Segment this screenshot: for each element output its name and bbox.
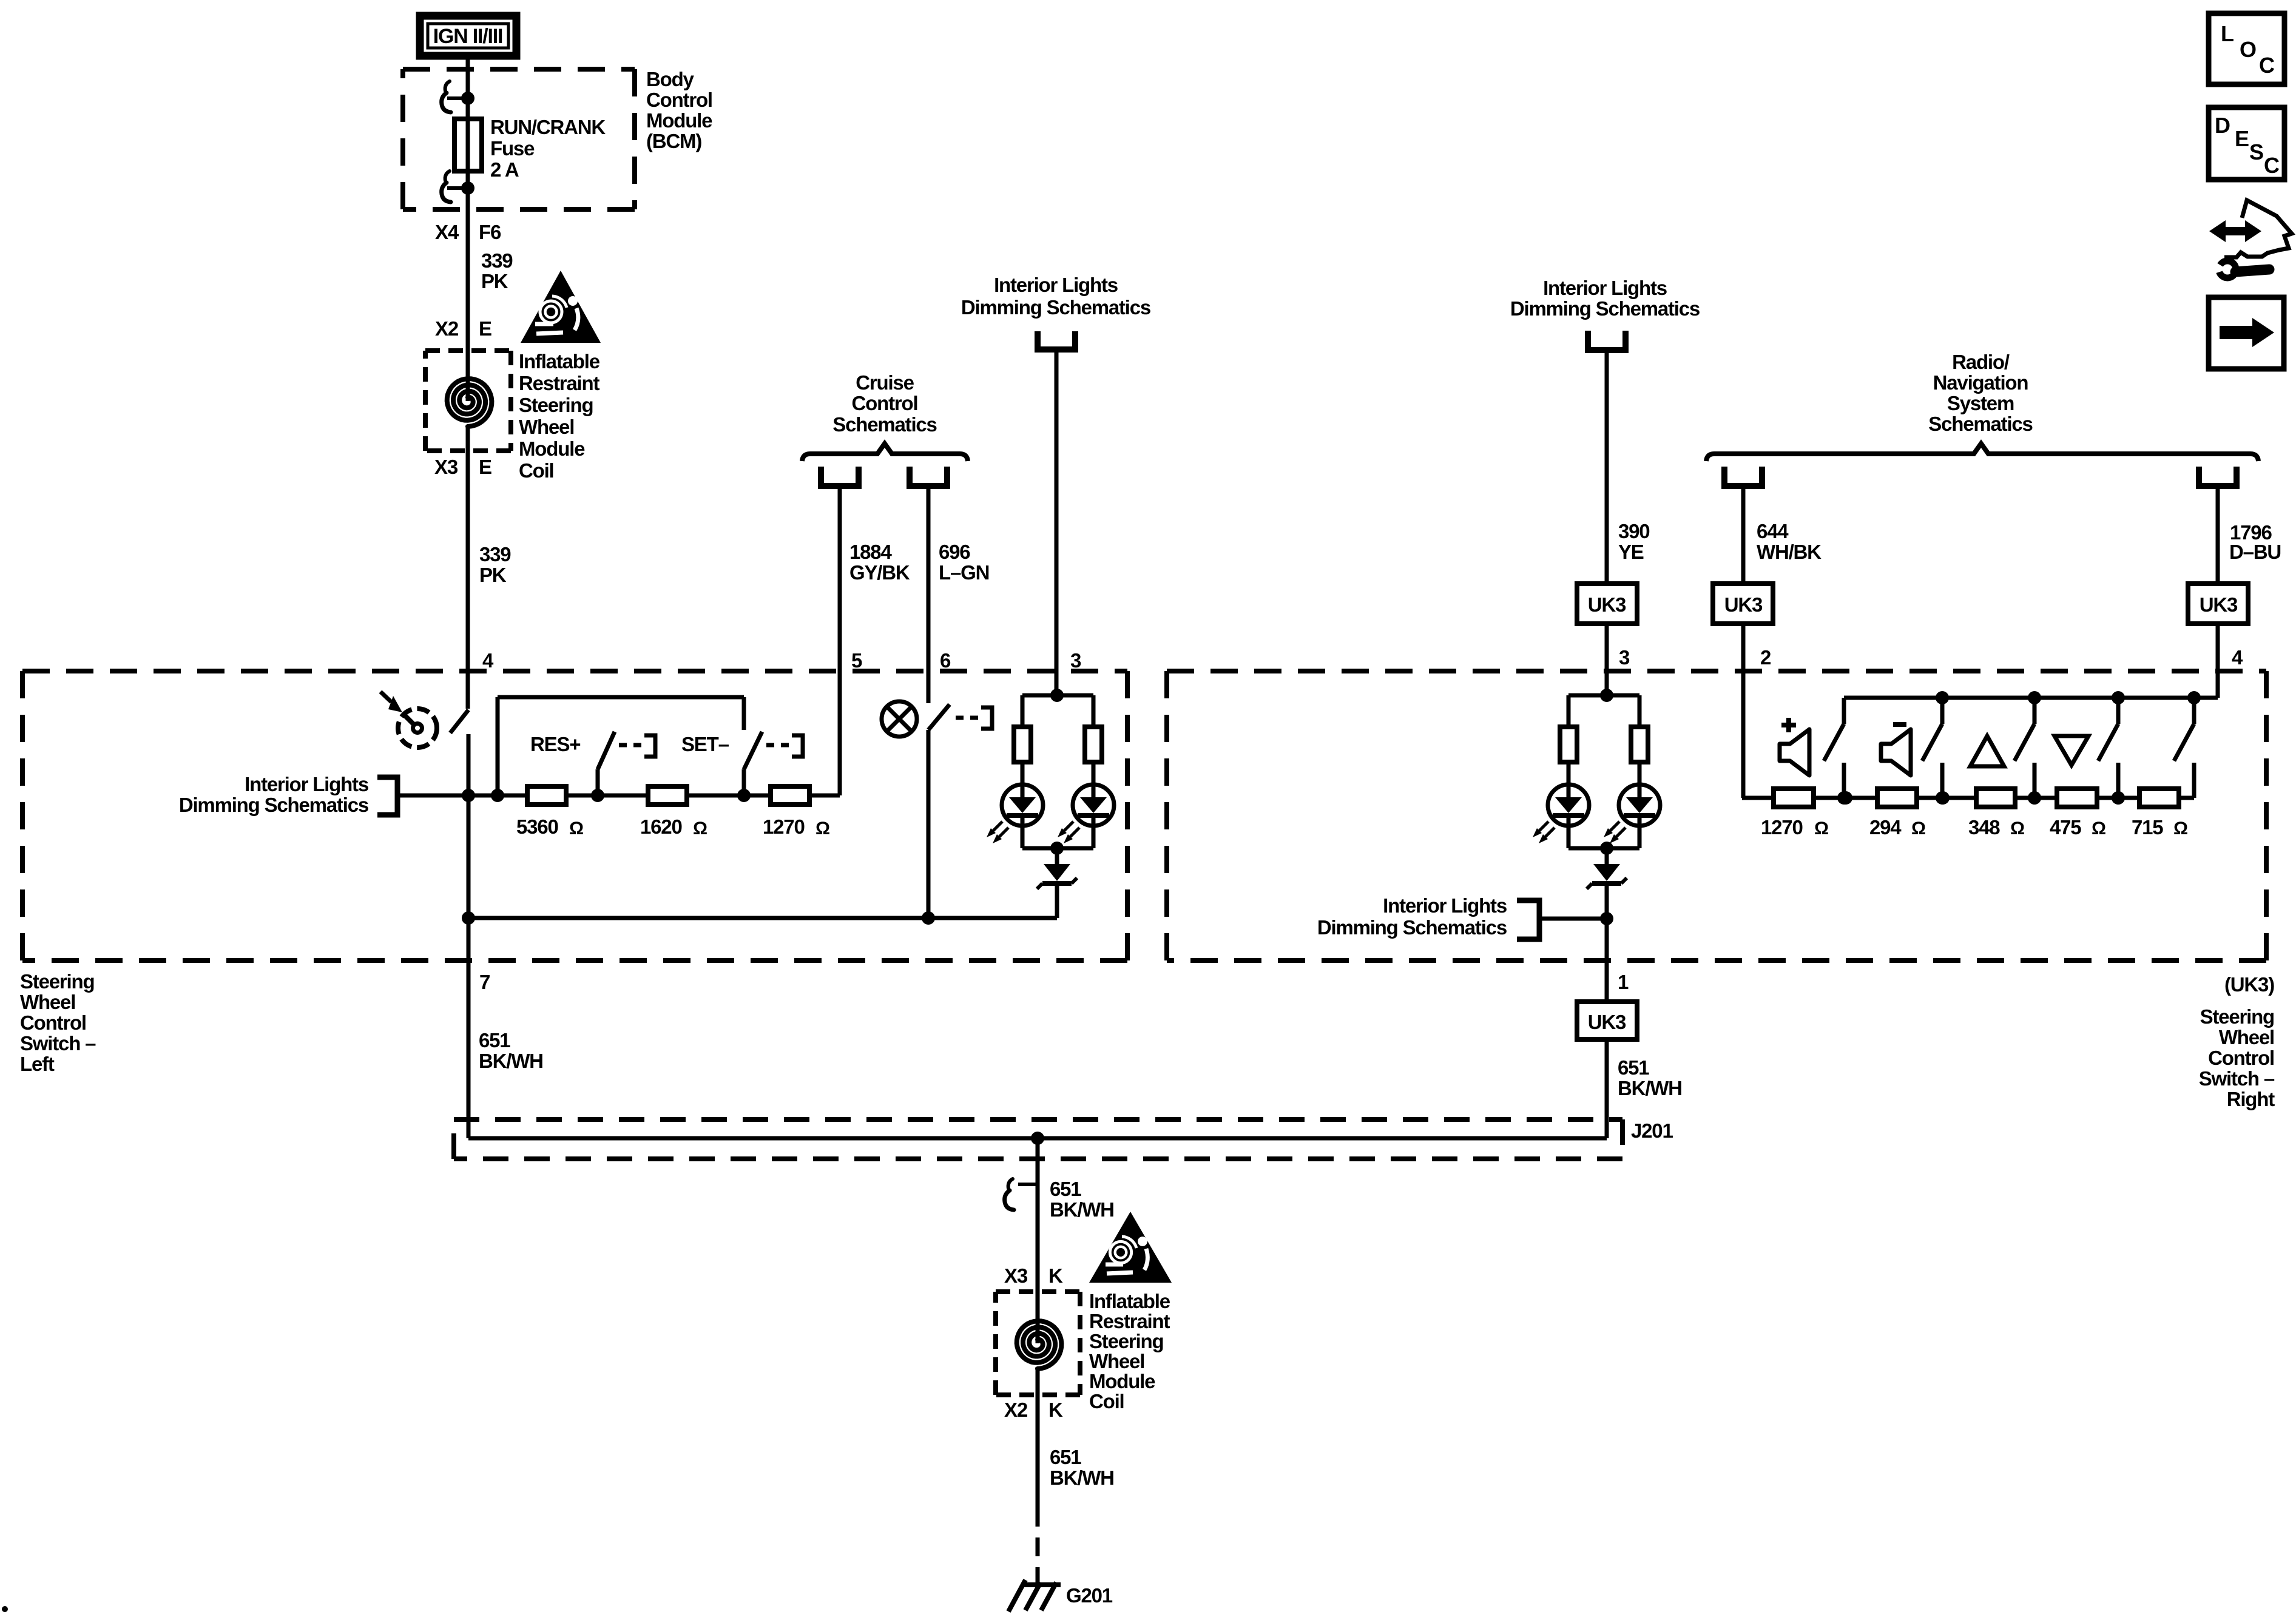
seek down symbol	[2055, 736, 2088, 765]
svg-text:Radio/: Radio/	[1952, 351, 2010, 373]
seek up symbol	[1970, 736, 2004, 766]
svg-text:Wheel: Wheel	[20, 991, 75, 1013]
svg-text:Dimming Schematics: Dimming Schematics	[1510, 297, 1700, 320]
svg-text:Dimming Schematics: Dimming Schematics	[179, 794, 368, 816]
svg-text:BK/WH: BK/WH	[1050, 1466, 1114, 1489]
resistor 5360 ohm	[527, 786, 566, 805]
wire coil2 down	[1036, 1395, 1040, 1508]
svg-text:X3: X3	[1004, 1264, 1028, 1287]
ref terminal radio left	[1724, 467, 1762, 486]
wire 1796 D-BU	[2216, 486, 2220, 698]
svg-text:WH/BK: WH/BK	[1757, 541, 1822, 563]
coil 2 spiral	[1036, 1292, 1040, 1343]
svg-text:UK3: UK3	[1724, 593, 1763, 616]
svg-text:348: 348	[1968, 816, 2000, 839]
svg-text:Switch –: Switch –	[20, 1032, 96, 1055]
svg-text:390: 390	[1618, 520, 1649, 542]
radio switch 1	[1842, 698, 1846, 724]
diode left	[1055, 848, 1059, 864]
svg-text:5360: 5360	[516, 815, 558, 838]
option box UK3 c	[2188, 584, 2248, 624]
svg-text:651: 651	[1050, 1178, 1081, 1200]
svg-text:1270: 1270	[763, 815, 805, 838]
volume - symbol	[1893, 722, 1906, 727]
svg-text:Control: Control	[20, 1011, 86, 1034]
svg-text:475: 475	[2050, 816, 2081, 839]
svg-text:G201: G201	[1066, 1584, 1113, 1607]
resistor 1270 ohm left	[771, 786, 809, 805]
fuse RUN/CRANK 2A	[454, 119, 482, 171]
svg-text:1270: 1270	[1761, 816, 1803, 839]
svg-text:Module: Module	[646, 109, 712, 132]
svg-text:X2: X2	[1004, 1399, 1028, 1421]
airbag warning symbol 2	[1089, 1212, 1172, 1283]
SET- switch	[742, 769, 746, 795]
svg-text:Ω: Ω	[1814, 818, 1828, 839]
svg-text:696: 696	[939, 541, 970, 563]
svg-text:Ω: Ω	[693, 818, 707, 839]
radio switch 4	[2116, 698, 2121, 724]
icon DESC box	[2209, 107, 2284, 180]
svg-text:Wheel: Wheel	[1089, 1350, 1144, 1372]
svg-text:UK3: UK3	[2200, 593, 2238, 616]
power tag IGN II/III	[420, 16, 516, 56]
svg-text:Interior Lights: Interior Lights	[1383, 894, 1507, 917]
wire pin 3 left	[1055, 349, 1059, 695]
svg-text:Body: Body	[646, 68, 695, 90]
resistor 294 ohm	[1877, 789, 1917, 807]
svg-text:UK3: UK3	[1588, 1011, 1626, 1033]
svg-text:X3: X3	[434, 456, 458, 478]
radio switch 5	[2192, 698, 2196, 724]
svg-text:UK3: UK3	[1588, 593, 1626, 616]
resistor 348 ohm	[1976, 789, 2015, 807]
svg-text:Control: Control	[852, 392, 918, 414]
wire J201 bus	[468, 1136, 1607, 1141]
radio switch rail	[1844, 696, 2218, 700]
svg-text:339: 339	[479, 543, 511, 565]
svg-text:Inflatable: Inflatable	[1089, 1290, 1170, 1312]
svg-text:(UK3): (UK3)	[2224, 973, 2274, 996]
svg-text:Interior Lights: Interior Lights	[1543, 277, 1667, 299]
icon LOC box	[2209, 13, 2284, 84]
svg-text:L–GN: L–GN	[939, 561, 989, 584]
inflatable restraint steering wheel module coil 2 dashed box	[996, 1289, 1080, 1294]
svg-text:L: L	[2221, 21, 2234, 46]
svg-text:GY/BK: GY/BK	[849, 561, 910, 584]
diode right	[1605, 848, 1609, 864]
svg-text:Steering: Steering	[20, 970, 94, 993]
svg-text:4: 4	[2232, 646, 2243, 669]
Body Control Module (BCM) dashed box	[403, 67, 635, 72]
node SET junction	[737, 789, 751, 802]
svg-text:Right: Right	[2227, 1088, 2275, 1110]
svg-text:Wheel: Wheel	[2219, 1026, 2274, 1048]
node fuse top	[461, 92, 474, 105]
svg-text:2: 2	[1760, 646, 1771, 669]
svg-text:651: 651	[1618, 1056, 1649, 1079]
option box UK3 d	[1577, 1002, 1637, 1039]
svg-text:Restraint: Restraint	[1089, 1310, 1170, 1332]
svg-text:SET–: SET–	[681, 733, 729, 755]
resistor chain rail	[498, 695, 744, 700]
svg-text:1620: 1620	[640, 815, 682, 838]
svg-text:Ω: Ω	[569, 818, 583, 839]
cancel switch blade	[928, 704, 950, 730]
node main/chain junction	[462, 789, 475, 802]
wire IGN to fuse	[466, 56, 470, 119]
svg-text:D: D	[2215, 113, 2230, 138]
Steering Wheel Control Switch - Left dashed box	[22, 669, 1127, 673]
svg-text:Ω: Ω	[1911, 818, 1925, 839]
wire chain to pin 5	[838, 487, 842, 795]
svg-text:5: 5	[851, 649, 862, 672]
ref terminal cruise right	[910, 467, 947, 486]
svg-text:System: System	[1947, 392, 2014, 414]
svg-text:J201: J201	[1631, 1119, 1673, 1142]
svg-text:Coil: Coil	[1089, 1390, 1124, 1412]
icon connector repair (arrow and wrench)	[2224, 200, 2292, 257]
wire fuse to X4	[466, 171, 470, 351]
Steering Wheel Control Switch - Right dashed box (UK3)	[1167, 669, 2266, 673]
svg-text:BK/WH: BK/WH	[479, 1050, 543, 1072]
svg-text:715: 715	[2132, 816, 2163, 839]
svg-text:Dimming Schematics: Dimming Schematics	[961, 296, 1150, 319]
wire J201 to coil 2	[1036, 1138, 1040, 1292]
ref terminal radio right	[2199, 467, 2237, 486]
svg-text:K: K	[1048, 1264, 1063, 1287]
svg-text:E: E	[479, 456, 491, 478]
arrow to speedometer	[380, 692, 391, 702]
cruise on/off switch blade	[450, 710, 468, 733]
svg-text:RUN/CRANK: RUN/CRANK	[490, 116, 606, 138]
svg-text:X4: X4	[435, 221, 459, 243]
svg-text:PK: PK	[479, 564, 507, 586]
svg-text:S: S	[2249, 140, 2263, 164]
svg-text:Steering: Steering	[1089, 1330, 1163, 1352]
ground G201	[1022, 1582, 1061, 1587]
svg-text:Ω: Ω	[2092, 818, 2105, 839]
svg-text:7: 7	[479, 971, 490, 993]
splice pack J201 dashed box	[454, 1117, 1622, 1122]
svg-text:Schematics: Schematics	[1928, 413, 2032, 435]
svg-text:Module: Module	[1089, 1370, 1155, 1392]
clip hook bottom of fuse	[445, 171, 450, 181]
resistor 715 ohm	[2139, 789, 2179, 807]
node cancel junction	[922, 911, 935, 925]
svg-text:Ω: Ω	[2010, 818, 2024, 839]
LED pair left	[1022, 694, 1093, 698]
cruise speedometer symbol	[398, 709, 437, 748]
svg-text:Fuse: Fuse	[490, 137, 535, 160]
svg-text:PK: PK	[481, 270, 508, 292]
svg-text:Module: Module	[519, 437, 585, 460]
ref terminal cruise left	[821, 467, 859, 486]
svg-text:Control: Control	[646, 89, 712, 111]
radio switch 3	[2033, 698, 2037, 724]
wire LED return	[468, 916, 1057, 920]
RES+ switch	[596, 769, 600, 795]
coil 1 spiral	[466, 351, 470, 401]
svg-text:Steering: Steering	[519, 394, 593, 416]
svg-text:X2: X2	[435, 317, 459, 340]
inflatable restraint steering wheel module coil 1 dashed box	[425, 348, 511, 353]
page artifact dot	[2, 1606, 8, 1612]
svg-text:294: 294	[1869, 816, 1902, 839]
cancel lamp circle-X	[882, 701, 917, 737]
svg-text:2 A: 2 A	[490, 158, 519, 181]
node fuse bottom	[461, 181, 474, 195]
svg-text:(BCM): (BCM)	[646, 130, 701, 152]
svg-text:IGN II/III: IGN II/III	[433, 25, 503, 48]
radio chain	[1742, 796, 1774, 800]
svg-text:644: 644	[1757, 520, 1789, 542]
svg-text:1884: 1884	[849, 541, 892, 563]
svg-text:Schematics: Schematics	[832, 413, 936, 436]
option box UK3 b	[1713, 584, 1773, 624]
svg-text:Interior Lights: Interior Lights	[994, 274, 1118, 296]
svg-text:1: 1	[1618, 971, 1629, 993]
svg-text:E: E	[2235, 126, 2249, 151]
svg-text:C: C	[2259, 53, 2275, 78]
svg-text:6: 6	[940, 649, 951, 672]
svg-text:C: C	[2264, 153, 2280, 178]
svg-text:651: 651	[1050, 1446, 1081, 1468]
icon next-page arrow box	[2209, 297, 2284, 369]
svg-text:F6: F6	[479, 221, 501, 243]
chain wire	[468, 794, 528, 798]
svg-text:Ω: Ω	[2173, 818, 2187, 839]
svg-text:Switch –: Switch –	[2199, 1067, 2275, 1090]
airbag warning symbol 1	[521, 271, 601, 343]
wire coil1 to switch	[466, 451, 470, 709]
wire 644 WH/BK	[1741, 486, 1746, 584]
resistor 1620 ohm	[648, 786, 687, 805]
svg-text:3: 3	[1070, 649, 1081, 672]
clip hook top of fuse	[445, 81, 450, 91]
dashed wire to ground	[1036, 1508, 1040, 1585]
svg-text:YE: YE	[1618, 541, 1644, 563]
resistor 1270 ohm right	[1774, 789, 1814, 807]
svg-text:O: O	[2240, 37, 2256, 62]
svg-text:Navigation: Navigation	[1933, 371, 2028, 394]
volume + symbol	[1781, 723, 1796, 727]
svg-text:Wheel: Wheel	[519, 416, 574, 438]
svg-text:BK/WH: BK/WH	[1050, 1198, 1114, 1221]
svg-text:4: 4	[482, 649, 494, 672]
option box UK3 a	[1577, 584, 1637, 624]
resistor 475 ohm	[2057, 789, 2097, 807]
svg-text:Dimming Schematics: Dimming Schematics	[1317, 916, 1507, 939]
clip at J201	[1018, 1183, 1036, 1186]
svg-text:Inflatable: Inflatable	[519, 350, 600, 373]
svg-text:K: K	[1048, 1399, 1063, 1421]
node RES junction	[591, 789, 604, 802]
svg-text:Left: Left	[20, 1053, 55, 1075]
svg-text:Restraint: Restraint	[519, 372, 599, 394]
LED pair right	[1568, 694, 1639, 698]
svg-text:Interior Lights: Interior Lights	[245, 773, 368, 795]
svg-text:BK/WH: BK/WH	[1618, 1077, 1682, 1099]
svg-text:D–BU: D–BU	[2229, 541, 2281, 563]
svg-text:651: 651	[479, 1029, 510, 1051]
svg-text:E: E	[479, 317, 491, 340]
svg-text:Coil: Coil	[519, 459, 554, 482]
wire 390 YE	[1605, 350, 1609, 584]
svg-text:Steering: Steering	[2200, 1005, 2274, 1028]
svg-text:Control: Control	[2208, 1047, 2274, 1069]
svg-text:Cruise: Cruise	[856, 371, 914, 394]
svg-text:3: 3	[1619, 646, 1630, 669]
svg-text:Ω: Ω	[815, 818, 829, 839]
svg-text:339: 339	[481, 249, 513, 272]
node J201 tap	[1031, 1132, 1044, 1145]
radio switch 2	[1940, 698, 1945, 724]
wire pin 6	[927, 486, 931, 703]
svg-text:RES+: RES+	[530, 733, 580, 755]
